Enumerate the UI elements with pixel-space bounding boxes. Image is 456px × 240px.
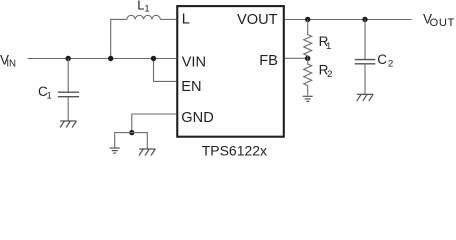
resistor R1 [304,20,312,59]
node junction VIN-EN [151,56,156,61]
svg-text:VOUT: VOUT [237,12,278,28]
node junction VIN-C1 [66,56,71,61]
wire VIN input net [28,58,176,60]
wire L pin lead [160,18,176,20]
node junction VOUT-C2 [362,17,367,22]
wire VOUT output net [285,19,412,21]
wire FB net [285,57,308,59]
power ground (chassis) below C2 [357,94,373,101]
resistor R2 [304,58,312,95]
node junction FB [305,56,310,61]
svg-text:EN: EN [181,79,201,95]
svg-text:L: L [182,12,190,28]
svg-text:VIN: VIN [182,55,206,71]
power ground (chassis) below C1 [60,121,76,128]
svg-text:VOUT: VOUT [423,11,455,29]
IC U1 TPS6122x body [177,6,284,137]
node junction VIN-L [108,56,113,61]
svg-text:L1: L1 [137,0,150,14]
svg-text:VIN: VIN [0,53,16,70]
node junction GND [129,130,134,135]
svg-text:TPS6122x: TPS6122x [202,143,267,157]
inductor L1 coil [127,15,160,19]
signal ground (earth) below R2 [303,96,313,101]
capacitor C1 [58,59,79,122]
node junction VOUT-R1 [305,17,310,22]
wire EN branch [154,59,177,82]
svg-text:R1: R1 [319,34,332,52]
svg-text:R2: R2 [319,62,333,80]
signal ground (earth) left of GND [110,148,120,153]
wire GND right branch [132,133,148,149]
svg-text:C1: C1 [38,84,52,102]
wire GND pin net [132,114,176,133]
capacitor C2 [355,20,376,95]
wire GND left branch [115,133,132,148]
svg-text:GND: GND [181,110,213,126]
svg-text:FB: FB [259,53,278,69]
wire inductor left branch [111,19,127,58]
svg-text:C2: C2 [377,52,393,70]
power ground (chassis) right of GND [139,149,155,156]
